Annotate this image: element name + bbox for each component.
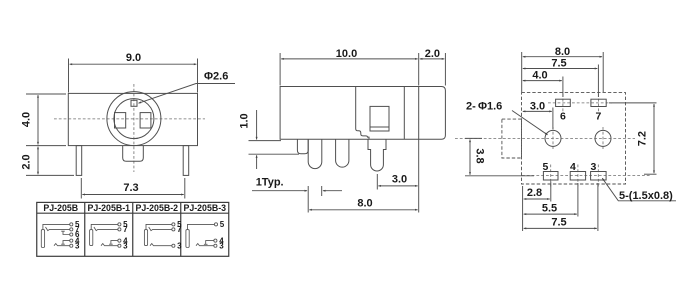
pad 6 vertical center line [562,94,564,112]
wire terminal 5 [146,224,172,229]
barrel outline dashed [502,119,522,158]
hole A [545,130,561,146]
jack outer circle [107,92,161,146]
side mounting tab [297,139,308,154]
dimension 4.0 [26,94,66,146]
dimension 1 Typ [252,190,342,192]
wire terminal 5 [43,224,70,229]
svg-text:PJ-205B-1: PJ-205B-1 [87,203,130,213]
wire terminal 3 [196,244,214,246]
svg-text:4: 4 [570,161,576,173]
cell PJ-205B-2 schematic [144,223,175,247]
barrel base line [418,87,420,140]
dimension 3.0 (layout) [523,108,553,130]
pads 5-4-3 center line [522,175,650,177]
barrel face line [403,87,405,140]
table frame [37,202,229,256]
svg-text:PJ-205B-3: PJ-205B-3 [183,203,226,213]
dimension 7.5 (layout top) [523,65,599,98]
wire terminal 3 [150,244,172,246]
pad 3 center tick [597,165,599,189]
dimension 2.8 [523,182,551,232]
svg-text:5: 5 [543,161,549,173]
wire terminal 7 [46,227,70,231]
svg-text:5: 5 [220,220,225,229]
pad 3 [591,172,607,181]
hole B [595,130,611,146]
wire terminal 4 [111,241,118,245]
pad 7 vertical center line [597,94,599,112]
wire terminal 6 [63,231,70,234]
jack bar [41,230,44,248]
label Phi 2.6 with leader [139,84,236,104]
pad labels [543,111,602,174]
front view center line horizontal [54,118,205,120]
wire terminal 5 [188,224,215,229]
svg-text:3: 3 [177,241,182,250]
svg-text:PJ-205B-2: PJ-205B-2 [135,203,178,213]
label 5-(1.5x0.8) with leader [602,178,676,201]
front view center line vertical [133,84,135,172]
svg-text:7: 7 [177,225,182,234]
svg-text:Φ2.6: Φ2.6 [204,71,228,83]
svg-text:10.0: 10.0 [336,48,357,60]
front mounting tab [123,146,144,162]
wire terminal 5 [91,224,118,229]
hole A vertical center line [552,127,554,151]
svg-text:6: 6 [560,111,566,123]
svg-text:4.0: 4.0 [532,70,547,82]
svg-text:7.5: 7.5 [551,58,566,70]
wire terminal 3 [54,244,70,246]
svg-text:PJ-205B: PJ-205B [43,203,78,213]
dimension 1.0 [249,110,300,169]
wire terminal 7 [94,227,118,231]
wire terminal 4 [206,241,214,245]
label 2-Phi1.6 with leader [512,111,548,135]
svg-text:3.8: 3.8 [474,148,486,163]
jack bar [186,230,189,248]
switch plunger [370,106,389,131]
front right leg [183,146,189,176]
wire terminal 7 [149,227,172,231]
svg-text:3.0: 3.0 [392,173,407,185]
layout outline dashed [522,93,626,184]
svg-text:3: 3 [123,241,128,250]
contact window right [140,113,151,128]
svg-text:7.3: 7.3 [123,182,138,194]
svg-text:8.0: 8.0 [555,46,570,58]
dimension 3.8 [465,138,534,175]
svg-text:7.5: 7.5 [551,217,566,229]
svg-text:2- Φ1.6: 2- Φ1.6 [466,100,502,112]
pad 5 center tick [550,165,552,189]
svg-text:2.8: 2.8 [527,187,542,199]
dimension 7.3 [81,178,185,199]
internal edge line [356,87,369,140]
side pin 3 [368,139,386,171]
pad 6 [556,99,571,106]
svg-text:4.0: 4.0 [21,112,33,127]
pad 5 [543,172,558,181]
jack inner circle [114,99,154,139]
jack bar [90,230,93,246]
pad 7 [591,99,606,106]
dimension 3.0 (side) [377,139,418,212]
front left leg [76,146,82,176]
hole B vertical center line [602,127,604,151]
pad 4 center tick [577,165,579,189]
wire terminal 4 [63,241,70,245]
jack bar [144,230,147,246]
svg-text:7: 7 [123,225,128,234]
svg-text:2.0: 2.0 [425,48,440,60]
pad 4 [570,172,585,181]
svg-text:3: 3 [591,161,597,173]
pads 6-7 center line [548,102,612,104]
dimension 10.0 [280,53,445,86]
cell PJ-205B-3 schematic [186,223,218,248]
tip contact tab [131,100,137,106]
side view body [280,87,445,140]
circles center line [455,137,635,139]
dimension 8.0 (side) [308,186,417,213]
cell PJ-205B schematic [41,223,73,248]
svg-text:9.0: 9.0 [126,52,141,64]
side pin 1 [308,139,322,168]
dimension 8.0 (layout) [522,52,604,92]
contact window left [115,113,126,128]
side pin 2 [336,139,349,167]
svg-text:1Typ.: 1Typ. [256,177,284,189]
svg-text:2.0: 2.0 [21,154,33,169]
svg-text:5-(1.5x0.8): 5-(1.5x0.8) [619,190,673,202]
dimension 5.5 [524,183,578,217]
svg-text:7: 7 [596,111,602,123]
svg-text:7.2: 7.2 [637,131,649,146]
dimension 9.0 [69,59,198,93]
svg-text:8.0: 8.0 [357,197,372,209]
dimension 7.2 [609,103,657,174]
dimension 7.5 (layout bottom) [524,183,598,231]
svg-text:3: 3 [219,241,224,250]
wire terminal 3 [101,244,118,246]
dimension 2.0 [26,147,74,176]
cell PJ-205B-1 schematic [90,223,121,247]
dimension 4.0 (layout) [523,77,563,98]
svg-text:3: 3 [75,241,80,250]
svg-text:5.5: 5.5 [542,202,557,214]
front view body [68,93,197,145]
svg-text:1.0: 1.0 [239,113,251,128]
svg-text:3.0: 3.0 [530,101,545,113]
